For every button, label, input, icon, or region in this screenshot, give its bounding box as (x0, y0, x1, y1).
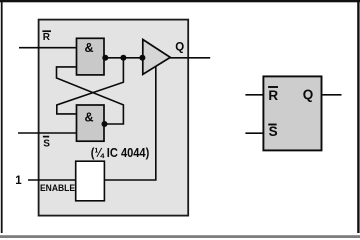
svg-text:ENABLE: ENABLE (40, 183, 75, 194)
enable box (76, 161, 105, 201)
svg-text:&: & (85, 41, 94, 55)
svg-text:R: R (268, 88, 278, 103)
wire gate1 output to buffer (104, 57, 143, 59)
block label S-bar (268, 124, 277, 139)
svg-text:R: R (43, 32, 51, 43)
wire S-bar input (18, 132, 77, 134)
wire feedback gate1-out to gate2-in (57, 58, 124, 114)
block symbol wire Q output (322, 94, 342, 96)
outer frame left border (1, 0, 3, 233)
outer frame top border (0, 0, 360, 2)
svg-text:1: 1 (15, 175, 22, 187)
block symbol wire R input (245, 94, 263, 96)
junction dot gate1 output (102, 55, 108, 61)
outer frame bottom border (0, 235, 360, 238)
block symbol wire S input (245, 132, 263, 134)
wire Q output (169, 57, 210, 59)
nand gate G2 body (77, 105, 105, 141)
wire feedback gate2-out to gate1-in (57, 67, 124, 124)
outer frame right border (357, 0, 359, 233)
wire enable net (28, 66, 156, 180)
nand gate G1 body (77, 38, 105, 75)
svg-text:Q: Q (303, 87, 314, 102)
block symbol body (263, 76, 321, 150)
svg-text:Q: Q (175, 42, 184, 54)
junction dot feedback tap (120, 55, 126, 61)
svg-text:(¼ IC 4044): (¼ IC 4044) (91, 146, 150, 160)
block label R-bar (268, 87, 278, 103)
junction dot gate2 output (102, 121, 108, 127)
svg-text:&: & (85, 110, 94, 124)
junction dot buffer input (139, 55, 145, 61)
output buffer triangle (143, 40, 171, 75)
svg-text:S: S (43, 139, 50, 150)
wire R-bar input (19, 47, 77, 49)
IC 4044 internal panel (39, 20, 189, 216)
label R-bar (panel) (42, 31, 51, 43)
svg-text:S: S (269, 124, 278, 139)
label S-bar (panel) (43, 137, 50, 150)
